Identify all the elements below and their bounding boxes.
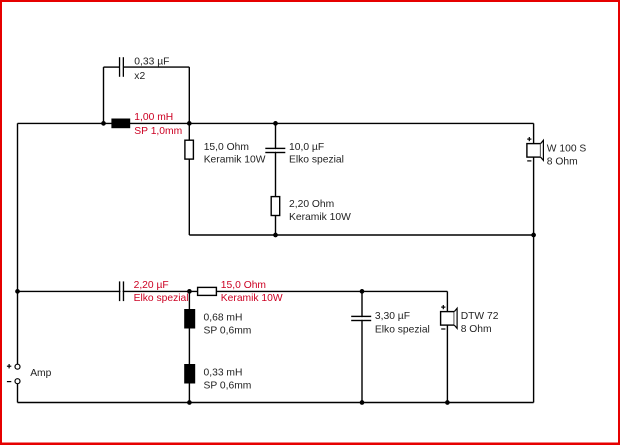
wire: left vertical from top rail to Amp + terminal — [17, 123, 19, 364]
capacitor C1 0,33 uF x2 — [119, 57, 124, 77]
wire: C4 shunt branch — [361, 291, 363, 402]
svg-text:SP 1,0mm: SP 1,0mm — [134, 126, 182, 137]
speaker LS1 W 100 S — [527, 140, 544, 160]
label Amp plus sign — [7, 364, 11, 368]
wire: right vertical through W100S — [533, 123, 535, 402]
svg-text:2,20 Ohm: 2,20 Ohm — [289, 199, 334, 210]
svg-text:SP 0,6mm: SP 0,6mm — [204, 326, 252, 337]
svg-text:Elko spezial: Elko spezial — [289, 155, 344, 166]
node junction at C2 top — [273, 121, 278, 126]
svg-text:15,0 Ohm: 15,0 Ohm — [204, 142, 249, 153]
svg-text:W 100 S: W 100 S — [547, 143, 587, 154]
svg-text:8 Ohm: 8 Ohm — [547, 156, 578, 167]
wire: Amp - terminal down to bottom rail — [17, 384, 19, 403]
terminal Amp plus — [15, 364, 20, 369]
terminal Amp minus — [15, 379, 20, 384]
svg-text:Keramik 10W: Keramik 10W — [289, 212, 351, 223]
wire: R1 shunt branch vertical — [188, 123, 190, 235]
node junction DTW72 bottom — [445, 400, 450, 405]
node junction L3 bottom at bottom rail — [187, 400, 192, 405]
label LS2 minus — [441, 328, 445, 330]
svg-text:1,00 mH: 1,00 mH — [134, 112, 173, 123]
node junction C3 / R3 / L2 — [187, 289, 192, 294]
capacitor C4 3,30 uF — [351, 316, 371, 321]
svg-text:15,0 Ohm: 15,0 Ohm — [221, 280, 266, 291]
label LS1 plus — [527, 137, 531, 141]
node junction left vertical / tweeter rail — [15, 289, 20, 294]
wire: bypass loop right vertical — [188, 67, 190, 123]
label LS2 plus — [441, 305, 445, 309]
inductor L2 0,68 mH — [184, 309, 195, 329]
inductor L1 1,00 mH — [111, 119, 130, 129]
capacitor C3 2,20 uF — [119, 281, 124, 301]
label Amp minus sign — [7, 381, 11, 383]
wire: bottom rail — [18, 402, 534, 404]
capacitor C2 10,0 uF — [265, 148, 285, 154]
inductor L3 0,33 mH — [184, 364, 195, 384]
wire: bypass loop top left segment — [104, 66, 120, 68]
svg-text:Keramik 10W: Keramik 10W — [204, 155, 266, 166]
svg-text:0,68 mH: 0,68 mH — [204, 313, 243, 324]
node junction at bypass right / R1 top — [187, 121, 192, 126]
resistor R2 2,20 Ohm — [271, 197, 280, 216]
svg-text:0,33 mH: 0,33 mH — [204, 368, 243, 379]
wire: top rail — [18, 122, 534, 124]
svg-text:DTW 72: DTW 72 — [461, 311, 499, 322]
resistor R3 15,0 Ohm — [198, 287, 217, 295]
svg-text:Elko spezial: Elko spezial — [134, 293, 189, 304]
node junction C2/R2 bottom at mid rail — [273, 233, 278, 238]
svg-text:Keramik 10W: Keramik 10W — [221, 293, 283, 304]
node junction C4 bottom — [360, 400, 365, 405]
svg-text:10,0 µF: 10,0 µF — [289, 142, 324, 153]
svg-text:2,20 µF: 2,20 µF — [134, 280, 169, 291]
node junction at bypass left — [101, 121, 106, 126]
wire: tweeter rail — [18, 290, 448, 292]
wire: tweeter inductor shunt branch — [188, 291, 190, 402]
speaker LS2 DTW 72 — [441, 308, 458, 328]
node junction C4 top — [360, 289, 365, 294]
svg-text:3,30 µF: 3,30 µF — [375, 311, 410, 322]
node junction mid rail / right vertical — [531, 233, 536, 238]
label LS1 minus — [527, 160, 531, 162]
svg-text:x2: x2 — [134, 71, 145, 82]
wire: mid rail — [189, 234, 533, 236]
wire: C2/R2 shunt branch vertical — [275, 123, 277, 235]
svg-text:SP 0,6mm: SP 0,6mm — [204, 381, 252, 392]
wire: bypass loop top right segment — [123, 66, 189, 68]
svg-text:8 Ohm: 8 Ohm — [461, 324, 492, 335]
svg-text:Elko spezial: Elko spezial — [375, 324, 430, 335]
wire: bypass loop left vertical — [103, 67, 105, 123]
resistor R1 15,0 Ohm — [185, 140, 194, 159]
wire: DTW72 branch vertical — [446, 291, 448, 402]
svg-text:0,33 µF: 0,33 µF — [134, 56, 169, 67]
svg-text:Amp: Amp — [30, 368, 51, 379]
